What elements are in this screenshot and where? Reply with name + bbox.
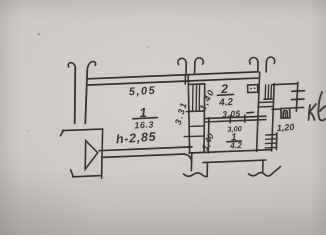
right column short vertical bounding lower rungs — [275, 133, 277, 150]
dimension dash after 3.05 — [247, 111, 254, 114]
door arc room1 SE corner — [185, 154, 192, 161]
svg-text:1: 1 — [139, 105, 147, 120]
svg-text:4.2: 4.2 — [218, 97, 234, 109]
radiator tick 3 — [291, 106, 304, 109]
toilet box — [281, 108, 290, 118]
svg-text:5,05: 5,05 — [129, 85, 157, 98]
faint speck 3 — [27, 130, 28, 131]
wall room1 bottom inner line — [102, 154, 185, 157]
window hatch between room1 and room2: top connector — [189, 83, 205, 86]
wall stub S1 above top wall, left vertical pair — [186, 62, 195, 74]
break curl S2 right — [266, 57, 274, 63]
svg-text:16.3: 16.3 — [134, 119, 154, 130]
wall room1 right (vertical) — [188, 76, 189, 152]
break wave under left stub — [184, 173, 208, 177]
underline room1 number — [133, 118, 157, 119]
wall right column left line — [257, 72, 260, 151]
faint speck 2 — [147, 46, 148, 47]
wall W1 room1 left outer line — [74, 68, 77, 124]
tick marks on divider wall — [230, 115, 245, 123]
wall room3 bottom slab bottom line — [203, 160, 266, 163]
break curl on W1 outer top — [68, 63, 75, 68]
radiator tick 2 — [291, 98, 304, 101]
radiator connector line — [273, 84, 298, 85]
handwritten kv at right edge — [309, 92, 326, 121]
toilet tick — [283, 113, 288, 118]
svg-text:h-2,85: h-2,85 — [115, 130, 157, 147]
balcony bottom line with hook — [71, 170, 102, 177]
radiator vertical — [296, 82, 298, 111]
right column hatch rungs upper — [259, 102, 273, 107]
window hatch right of room2: verticals — [265, 85, 271, 99]
wall W2 top wall inner line — [88, 78, 258, 85]
wall right column right line — [272, 84, 275, 151]
wall divider rooms2/3 inner line — [204, 120, 266, 122]
wall divider rooms2/3 outer line — [205, 116, 267, 118]
underline room2 number — [218, 93, 234, 96]
radiator tick 1 — [292, 90, 305, 93]
window hatch right: bottom connector — [264, 98, 272, 100]
window hatch bottom connector — [187, 110, 205, 113]
break wave under right stub — [249, 167, 281, 177]
break curl S2 left — [250, 58, 258, 64]
hatch rungs between room1 and room3 — [184, 126, 204, 137]
right column hatch rungs lower — [265, 135, 276, 148]
slab right vertical stub — [262, 160, 264, 172]
svg-text:3.05: 3.05 — [222, 108, 241, 119]
wall room3 bottom slab top line — [189, 150, 272, 153]
wall room2/room3 left (vertical long) — [203, 84, 206, 152]
wall room1 bottom outer line — [99, 147, 192, 151]
balcony right wall — [102, 129, 103, 178]
underline room3 number — [227, 140, 242, 143]
break curl on W1 inner top — [87, 62, 95, 70]
appliance box in room2 — [248, 85, 258, 93]
window hatch verticals — [193, 84, 200, 110]
speck on paper — [38, 33, 40, 35]
wall W1 room1 left inner line — [85, 70, 87, 124]
break curl S1 right — [195, 58, 203, 64]
balcony door triangle — [85, 141, 98, 170]
break curl S1 left — [178, 58, 186, 64]
wall below door (vertical) — [190, 153, 192, 171]
text labels — [115, 82, 294, 152]
paper vignette edges — [0, 0, 326, 20]
wall W2 top wall outer line (rooms 1-2) — [88, 72, 258, 79]
wall stub S2 above top wall, right vertical pair — [258, 61, 267, 72]
svg-text:2: 2 — [220, 82, 229, 97]
svg-text:1,20: 1,20 — [276, 122, 294, 133]
svg-text:4.2: 4.2 — [229, 140, 243, 151]
balcony top line with hook — [60, 129, 102, 136]
wall short seg left of window box — [184, 76, 186, 84]
toilet arch — [283, 111, 287, 118]
wall room3 left second line — [207, 118, 210, 153]
toilet connector — [272, 108, 281, 110]
slab left vertical stub — [206, 162, 208, 176]
